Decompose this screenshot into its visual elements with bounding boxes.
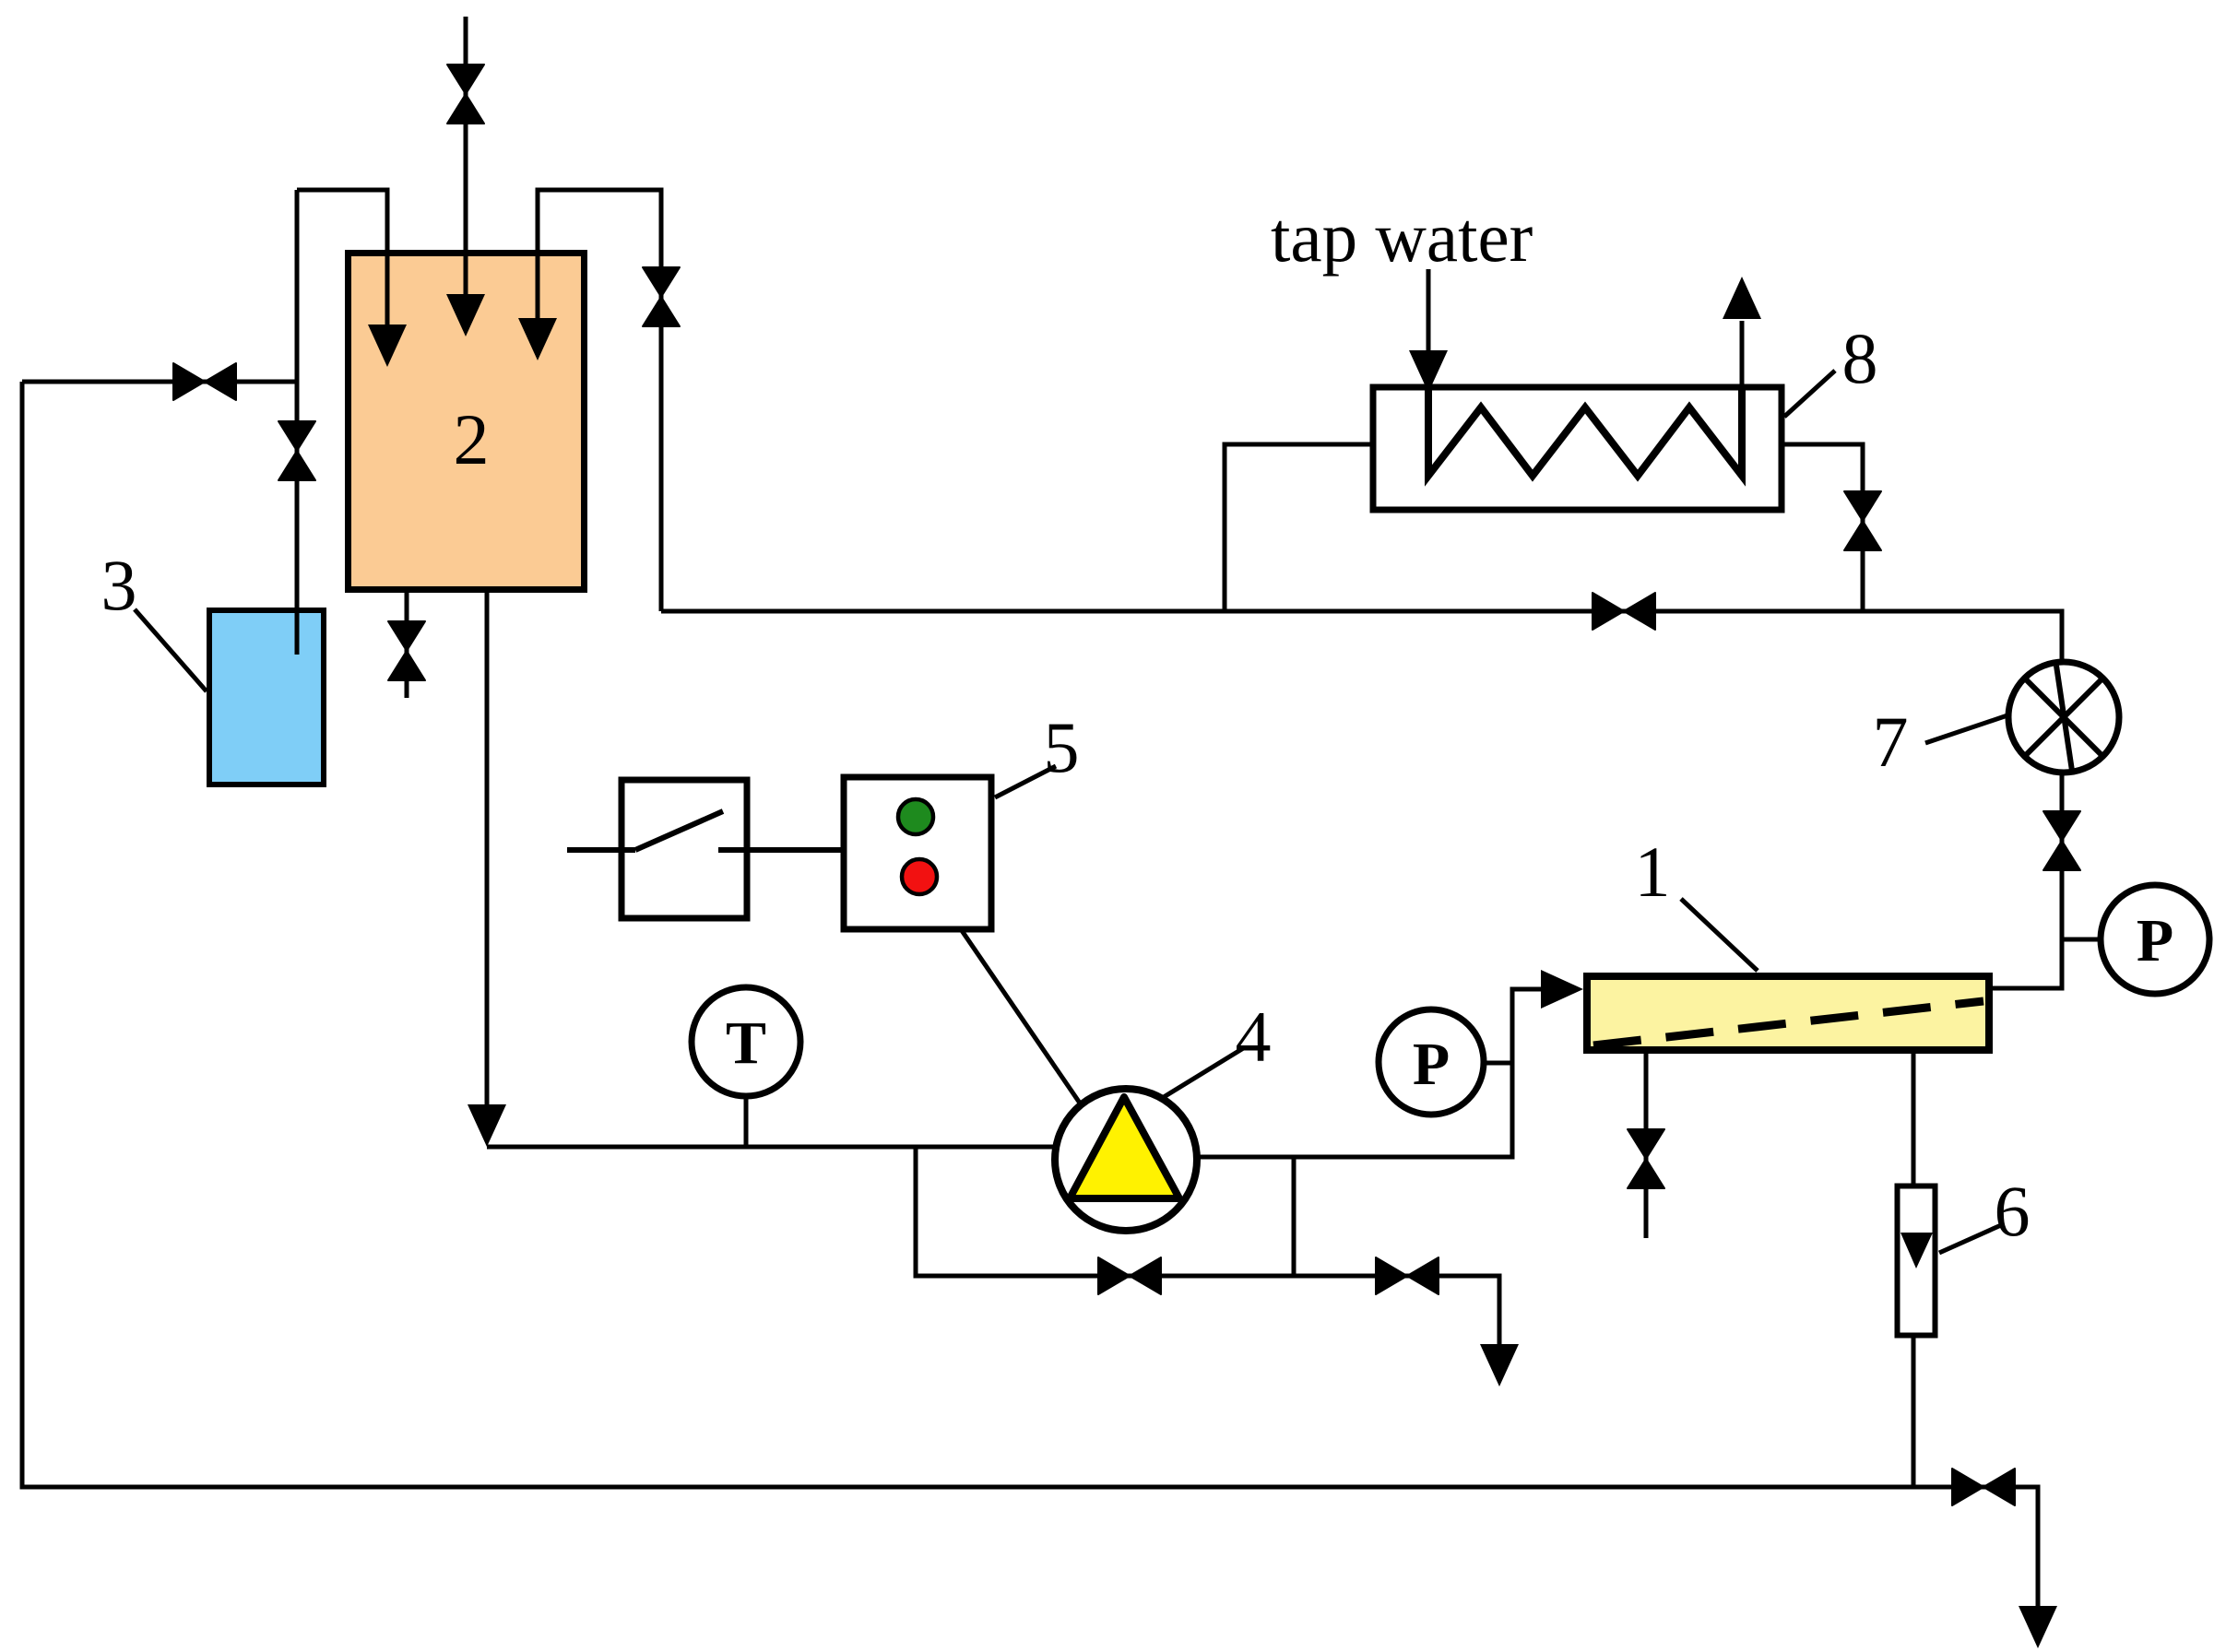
svg-text:T: T [726,1009,766,1077]
svg-text:8: 8 [1842,318,1878,398]
svg-text:1: 1 [1635,832,1671,912]
svg-text:3: 3 [101,545,137,625]
svg-text:6: 6 [1995,1171,2031,1251]
svg-text:P: P [2137,907,2173,974]
svg-text:7: 7 [1873,702,1909,782]
svg-text:P: P [1413,1031,1450,1098]
svg-text:4: 4 [1236,997,1272,1077]
svg-text:2: 2 [454,399,490,479]
svg-text:5: 5 [1044,707,1080,787]
svg-text:tap water: tap water [1271,197,1533,277]
